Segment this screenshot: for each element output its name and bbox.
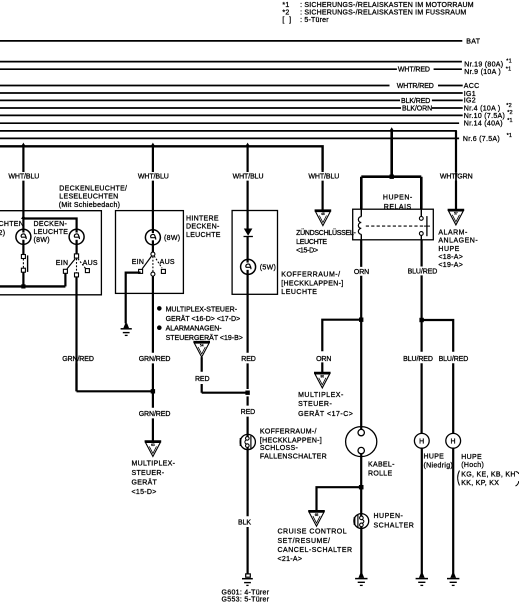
svg-text:LEUCHTE: LEUCHTE [186,232,221,239]
junction GRN/RED merge [151,389,155,393]
svg-text:WHT/BLU: WHT/BLU [138,173,169,180]
svg-text:WHT/RED: WHT/RED [398,67,430,74]
svg-text:LESELEUCHTEN: LESELEUCHTEN [59,194,118,201]
svg-text:2): 2) [0,230,5,237]
junction hot bus to wire C [245,143,250,147]
cable reel KABELROLLE [346,427,377,457]
ground high horn [447,573,459,585]
svg-text:SCHALTER: SCHALTER [374,523,415,530]
svg-text:<15-D>: <15-D> [132,489,157,496]
switch S3 EIN/AUS box2 [139,252,166,276]
svg-text:Nr.19 (80A): Nr.19 (80A) [464,61,503,68]
wire bus Nr.19 [0,61,462,63]
svg-text:SET/RESUME/: SET/RESUME/ [278,538,331,545]
svg-text:HUPE: HUPE [438,246,459,253]
wire EIN branch to ground box2 [126,273,141,324]
svg-text:RED: RED [241,356,256,363]
svg-text:*1: *1 [506,66,512,72]
wire ORN down to cable reel [360,320,362,430]
svg-text:*2: *2 [282,9,289,16]
svg-text:BLK/RED: BLK/RED [401,98,430,105]
svg-text:KABEL-: KABEL- [368,462,395,469]
wire BLU/RED from relay contact [421,240,423,320]
svg-text:ALARMANAGEN-: ALARMANAGEN- [166,326,223,333]
wire horn switch to ground [360,527,362,574]
wire BLK down [247,450,249,574]
svg-text:ALARM-: ALARM- [438,230,468,237]
wire lamp3 to pivot [152,240,154,252]
junction BLU/RED split [419,318,423,322]
wire bus IG2 [0,99,463,101]
horn switch S5 [354,514,369,529]
junction box1 tee [21,215,26,219]
wire bus Nr.6 [0,137,459,139]
svg-text:STEUERGERÄT <19-B>: STEUERGERÄT <19-B> [166,334,243,342]
wire below cable reel [360,454,362,516]
svg-text:G601: 4-Türer: G601: 4-Türer [222,589,270,596]
connector triangle alarm 57 [448,210,465,225]
horn H low [414,433,429,448]
svg-text:KG, KE, KB, KH: KG, KE, KB, KH [461,471,515,478]
svg-text:HUPE: HUPE [461,454,482,461]
svg-text:BLK/ORN: BLK/ORN [402,105,432,112]
svg-text:54: 54 [200,344,204,348]
switch S1 plunger squares [21,255,27,273]
svg-text:H: H [419,439,424,446]
svg-text:<19-A>: <19-A> [438,262,463,269]
paren right cut bottom [516,481,519,486]
svg-text:STEUER-: STEUER- [132,470,165,477]
svg-text:RED: RED [241,409,256,416]
svg-text:WHT/BLU: WHT/BLU [233,173,264,180]
relay actuating dashed link [366,225,424,227]
svg-text:Nr.9 (10A ): Nr.9 (10A ) [464,69,501,76]
svg-text:<21-A>: <21-A> [278,556,303,563]
svg-text:KK, KP, KX: KK, KP, KX [461,480,499,487]
wire BLU/RED down to low horn [421,320,423,433]
svg-text:EIN: EIN [56,260,69,267]
svg-text:SCHLOSS-: SCHLOSS- [260,445,299,452]
wire ORN from relay coil [360,240,362,320]
svg-text:Nr.4 (10A ): Nr.4 (10A ) [464,106,501,113]
wire lamp2 to pivot [75,240,77,254]
junction on feed line at relay drop [389,127,394,131]
svg-text:HINTERE: HINTERE [186,215,219,222]
wire bus ACC [0,85,463,87]
svg-text:Nr.14 (40A): Nr.14 (40A) [464,121,503,128]
svg-text:(8W): (8W) [34,237,50,244]
junction RED merge [245,391,249,395]
box2 outline [116,211,184,294]
box3 outline [232,211,277,295]
svg-text:ACC: ACC [464,83,480,90]
box1 outline [0,211,101,295]
wire box1 output down [75,277,77,391]
svg-text:BLK: BLK [238,520,251,527]
wire bus IG1 [0,92,463,94]
svg-text:: SICHERUNGS-/RELAISKASTEN IM: : SICHERUNGS-/RELAISKASTEN IM FUSSRAUM [300,9,466,16]
svg-text:EIN: EIN [132,259,145,266]
wire low horn to ground [421,448,423,573]
horn H high [446,433,461,448]
svg-text:GERÄT <16-D> <17-D>: GERÄT <16-D> <17-D> [166,315,241,323]
svg-text:GERÄT <17-C>: GERÄT <17-C> [298,410,353,418]
wire bus feed to relay and WHT/GRN [0,131,456,210]
ground G601 trunk switch [242,574,253,586]
svg-text:MULTIPLEX-: MULTIPLEX- [132,460,176,467]
svg-text:RELAIS: RELAIS [384,204,412,211]
svg-text:BAT: BAT [466,38,480,45]
lamp L3 hintere deckenleuchte [145,230,160,245]
svg-text:MULTIPLEX-STEUER-: MULTIPLEX-STEUER- [166,306,238,313]
svg-text:ANLAGEN-: ANLAGEN- [438,238,478,245]
connector triangle cruise 21-A [308,511,325,526]
svg-text:[HECKKLAPPEN-]: [HECKKLAPPEN-] [260,437,322,444]
relay contact [419,209,430,240]
wire bus Nr.14 [0,122,459,124]
svg-text:*2: *2 [507,110,513,116]
svg-text:DECKEN-: DECKEN- [186,224,220,231]
paren right cut top [516,472,519,475]
relay K1 box [353,209,434,240]
svg-text:MULTIPLEX-: MULTIPLEX- [298,392,344,399]
big paren left [458,471,460,486]
ground horn switch [355,573,367,585]
svg-text:(5W): (5W) [260,265,276,272]
svg-text:BLU/RED: BLU/RED [439,356,469,363]
switch S2 EIN/AUS box1 [63,254,89,277]
wire diode to lamp [247,237,249,263]
svg-text:Nr.10 (7.5A): Nr.10 (7.5A) [464,113,505,120]
svg-text:WHT/BLU: WHT/BLU [8,173,39,180]
svg-text:ORN: ORN [316,356,331,363]
wire EIN branch down box1 [64,273,66,286]
wire bus BAT [0,40,462,42]
wire WHT/GRN drop [455,131,457,210]
svg-text:80: 80 [321,375,325,379]
connector triangle multiplex 15-D [145,441,162,456]
svg-text:IG2: IG2 [464,98,476,105]
svg-text:<15-D>: <15-D> [296,247,318,254]
svg-text:DECKENLEUCHTE/: DECKENLEUCHTE/ [59,185,127,192]
ground low horn [416,573,428,585]
svg-text:(Niedrig): (Niedrig) [424,462,454,469]
connector triangle 54 [193,342,210,357]
wire D WHT/BLU to key light [322,170,324,211]
wire RED from 54 down [202,357,248,393]
svg-text:GRN/RED: GRN/RED [139,411,171,418]
svg-text:LEUCHTE: LEUCHTE [281,289,317,296]
junction relay feed tee [390,175,394,179]
wire bus Nr.10 [0,114,463,116]
connector triangle zuendschluessel [315,211,332,226]
wire lamp1 to switch [22,240,24,255]
wire box1 output lower with gap [75,353,77,392]
svg-text:[HECKKLAPPEN-]: [HECKKLAPPEN-] [281,281,343,288]
connector triangle multiplex 17-C [314,373,331,388]
svg-text:CHTEN: CHTEN [0,221,24,228]
svg-text:STEUER-: STEUER- [298,401,332,408]
svg-text:LEUCHTE: LEUCHTE [34,229,69,236]
junction common box1 [21,284,25,288]
svg-text:: SICHERUNGS-/RELAISKASTEN IM: : SICHERUNGS-/RELAISKASTEN IM MOTORRAUM [300,2,474,9]
svg-text:GRN/RED: GRN/RED [139,356,171,363]
svg-text:63: 63 [151,443,155,447]
svg-text:H: H [451,439,456,446]
svg-text:ROLLE: ROLLE [368,471,392,478]
svg-text:RED: RED [195,376,210,383]
wire common to left edge box1 [0,285,65,287]
svg-text:(Mit Schiebedach): (Mit Schiebedach) [59,202,121,209]
svg-text:HUPEN-: HUPEN- [374,513,404,520]
svg-text:[ ]: [ ] [282,17,291,24]
lamp L2 deckenleuchte box1 [69,229,84,244]
wire merged GRN/RED down [152,391,154,441]
svg-text:GRN/RED: GRN/RED [62,356,94,363]
svg-text:: 5-Türer: : 5-Türer [300,17,329,24]
wire switch S1 to common [22,272,24,286]
svg-text:GERÄT: GERÄT [132,479,158,487]
svg-text:WHTR/RED: WHTR/RED [397,83,434,90]
ground G under box2 [121,323,132,335]
bullet 2 [157,325,162,330]
wire bus hot (bottom thick) [0,146,323,170]
svg-text:(8W): (8W) [164,235,180,242]
junction cruise branch [359,485,364,489]
svg-text:(Hoch): (Hoch) [461,462,484,469]
lamp L4 trunk 5W [241,259,256,274]
svg-text:ORN: ORN [354,269,369,276]
svg-text:G553: 5-Türer: G553: 5-Türer [222,597,270,604]
svg-text:Nr.6 (7.5A): Nr.6 (7.5A) [463,136,500,143]
lamp L1 leseleuchte [16,229,31,244]
svg-text:<18-A>: <18-A> [438,254,463,261]
svg-text:WHT/GRN: WHT/GRN [440,173,473,180]
svg-text:*1: *1 [282,2,289,9]
relay coil [358,209,361,240]
svg-text:BLU/RED: BLU/RED [403,356,433,363]
svg-text:*1: *1 [507,133,513,139]
svg-text:AUS: AUS [83,260,98,267]
wire bus Nr.4 [0,107,463,109]
junction ORN split [359,318,363,322]
svg-text:HUPEN-: HUPEN- [383,195,413,202]
wire box2 output down [152,276,154,391]
wire A WHT/BLU upper [22,146,24,232]
wire high horn to ground [452,448,454,573]
svg-text:FALLENSCHALTER: FALLENSCHALTER [260,453,327,460]
svg-text:57: 57 [454,212,458,216]
junction hot bus to wire B [150,143,155,147]
wire relay feed drop [361,131,421,209]
junction hot bus to wire A [21,143,26,147]
bullet 1 [157,306,162,311]
switch S4 trunk latch [240,434,256,449]
wire box1 tee to lamp2 [23,219,76,233]
svg-text:ZÜNDSCHLÜSSEL-: ZÜNDSCHLÜSSEL- [296,229,356,237]
svg-text:WHT/BLU: WHT/BLU [308,173,339,180]
svg-text:KOFFERRAUM-/: KOFFERRAUM-/ [281,272,340,279]
svg-text:*2: *2 [506,103,512,109]
svg-text:LEUCHTE: LEUCHTE [296,239,327,246]
svg-text:HUPE: HUPE [424,454,445,461]
svg-text:*1: *1 [507,118,513,124]
diode D1 [244,229,253,237]
wire box3 output down [247,270,249,450]
wire B WHT/BLU upper [152,146,154,233]
svg-text:KOFFERRAUM-/: KOFFERRAUM-/ [260,429,317,436]
wire BLU/RED branch right [422,320,454,433]
wire cruise branch [317,487,362,511]
svg-text:CRUISE CONTROL: CRUISE CONTROL [278,529,348,536]
svg-text:BLU/RED: BLU/RED [408,268,438,275]
wire ORN branch left [322,320,361,373]
svg-text:AUS: AUS [160,259,175,266]
svg-text:DECKEN-: DECKEN- [34,221,68,228]
wire bus Nr.9 [0,68,462,70]
svg-text:46: 46 [321,212,325,216]
wire GRN/RED merge horizontal [77,390,153,392]
svg-text:CANCEL-SCHALTER: CANCEL-SCHALTER [278,547,353,554]
svg-text:*1: *1 [506,59,512,65]
svg-text:65: 65 [315,513,319,517]
wire C WHT/BLU upper [247,146,249,229]
